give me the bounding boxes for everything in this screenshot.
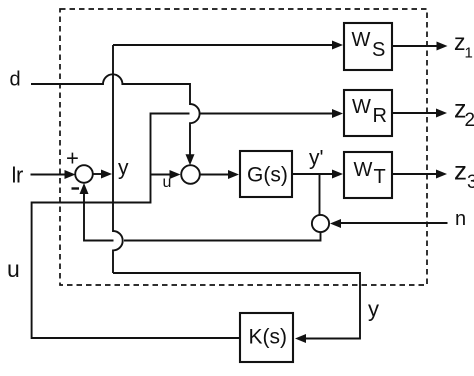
- wire: d input with hop, drop into summing junction S2 with hop over u line: [31, 74, 200, 154]
- wire: W_T output z3: [392, 173, 436, 175]
- svg-text:3: 3: [467, 172, 474, 193]
- svg-text:W: W: [352, 96, 371, 118]
- label minus: [72, 187, 80, 189]
- svg-text:2: 2: [465, 110, 474, 131]
- plant block G(s): [240, 151, 292, 197]
- svg-text:G(s): G(s): [247, 164, 288, 187]
- wire: error branch vertical (node y) with hop over feedback line: [113, 45, 123, 273]
- svg-text:y: y: [118, 157, 129, 180]
- wire: r input into summing junction S1: [31, 174, 66, 176]
- wire: measured output feedback to S1 minus input (passes under hop): [84, 191, 321, 241]
- wire: y' drop to summing junction S3: [319, 174, 321, 215]
- weight block W_R: [344, 90, 392, 136]
- wire: S2 output into G(s): [200, 174, 229, 176]
- svg-text:d: d: [10, 69, 21, 91]
- wire: u path from K(s) output, up left side, to W_R with hop over d-drop: [32, 114, 332, 339]
- wire: n input into summing junction S3: [341, 222, 448, 224]
- label r: [13, 167, 15, 183]
- wire: G(s) output y' into W_T: [292, 173, 332, 175]
- wire: W_S output z1: [392, 45, 437, 47]
- wire: W_R output z2: [392, 112, 436, 114]
- wire: feed to W_S: [113, 44, 332, 46]
- summing junction S3: [312, 215, 329, 232]
- svg-text:K(s): K(s): [249, 326, 288, 349]
- svg-text:1: 1: [465, 45, 473, 62]
- svg-text:y: y: [368, 297, 379, 322]
- svg-text:S: S: [372, 39, 385, 61]
- dashed generalized-plant boundary P: [60, 9, 427, 285]
- svg-text:u: u: [7, 256, 20, 282]
- svg-text:u: u: [163, 174, 172, 191]
- svg-text:n: n: [455, 208, 466, 230]
- svg-text:r: r: [16, 163, 23, 188]
- svg-text:z: z: [454, 156, 467, 186]
- wire: u branch into summing junction S2: [151, 174, 171, 176]
- svg-text:R: R: [373, 105, 387, 127]
- svg-text:y': y': [309, 147, 324, 170]
- weight block W_S: [344, 23, 392, 70]
- weight block W_T: [344, 152, 392, 198]
- svg-text:W: W: [352, 29, 371, 51]
- controller block K(s): [240, 313, 293, 362]
- wire: y to K(s) (down right side): [113, 273, 360, 339]
- svg-text:W: W: [354, 159, 373, 181]
- summing junction S2: [181, 165, 200, 184]
- svg-text:+: +: [66, 146, 79, 171]
- wire: S1 output to node y: [93, 173, 103, 175]
- summing junction S1: [75, 165, 93, 183]
- svg-text:T: T: [374, 166, 386, 188]
